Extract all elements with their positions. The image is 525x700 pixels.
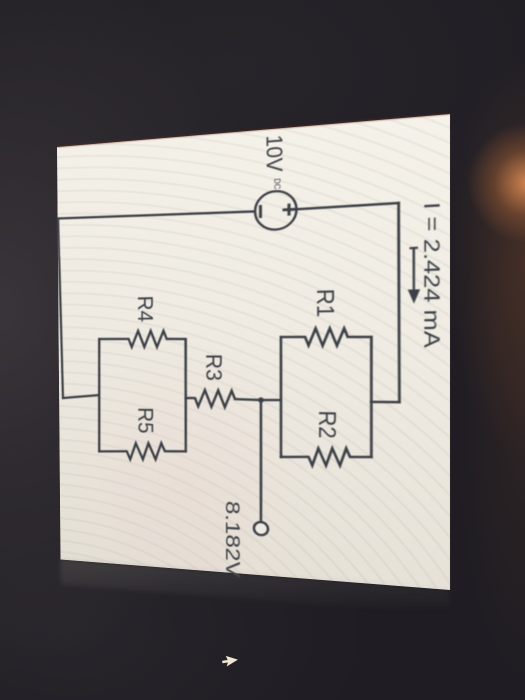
wire: top rail: [397, 203, 400, 402]
cursor arrow: [221, 655, 238, 669]
bloom under bottom screen edge: [61, 559, 451, 615]
current arrow I: [408, 248, 421, 304]
resistor R4 (left edge of lower box): [99, 330, 186, 347]
resistor R1 (left edge of upper box): [281, 328, 371, 346]
voltage source V1 circle: [255, 190, 297, 231]
wire: lower box top edge: [185, 339, 186, 451]
wire: stub lower box bottom to bottom rail: [63, 395, 99, 399]
wire: upper box top edge: [370, 337, 373, 457]
wire: right feed from top rail into R1R2 box: [371, 400, 399, 403]
wire: bottom rail: [58, 218, 63, 398]
wire: upper box bottom edge: [279, 337, 282, 457]
wire: lower box bottom edge: [98, 339, 100, 451]
V1 minus sign: [259, 205, 262, 218]
resistor R2 (right edge of upper box): [281, 446, 371, 467]
terminal node circle (8.182V probe): [254, 522, 268, 536]
wire: node horizontal to terminal: [260, 400, 261, 522]
V1 plus sign: [260, 203, 295, 218]
wire: stub from upper box bottom to node T: [261, 398, 281, 401]
resistor R3 (between node and lower box): [186, 390, 261, 408]
wire: left rail upper (source top lead): [296, 203, 398, 209]
warm fringe above top screen edge: [57, 113, 450, 148]
junction dot at node T: [258, 397, 264, 402]
resistor R5 (right edge of lower box): [99, 441, 186, 461]
wire: left rail lower (source bottom lead): [58, 207, 255, 222]
